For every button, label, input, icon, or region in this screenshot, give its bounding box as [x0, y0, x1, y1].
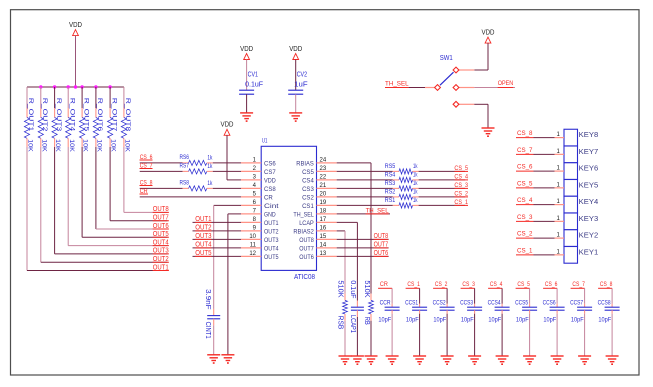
svg-text:10K: 10K	[96, 139, 103, 152]
wire CCS7 to ground	[584, 314, 586, 356]
svg-text:RS1: RS1	[385, 197, 396, 204]
svg-text:10K: 10K	[82, 139, 89, 152]
svg-text:OUT5: OUT5	[264, 254, 279, 261]
svg-text:1k: 1k	[207, 155, 212, 162]
wire pin 9 (OUT2)	[193, 230, 242, 232]
wire pin 19 to RS1	[337, 204, 393, 206]
svg-text:1k: 1k	[413, 189, 418, 196]
svg-text:CS8: CS8	[264, 186, 276, 193]
resistor RS6 1k	[180, 154, 213, 165]
resistor R_OUT7 10K	[108, 98, 118, 153]
svg-text:10K: 10K	[40, 139, 47, 152]
net label CS_2 (right)	[454, 190, 468, 197]
svg-text:RS6: RS6	[180, 154, 190, 161]
wire RS4 to CS_4 label	[419, 179, 465, 181]
ground (CCS8)	[606, 356, 619, 364]
svg-text:RS4: RS4	[385, 172, 396, 179]
wire pin 20 to RS2	[337, 196, 393, 198]
wire bus to R_OUT1	[26, 87, 28, 108]
pin 12 (OUT5)	[241, 251, 279, 261]
wire switch to ground	[474, 104, 488, 128]
svg-text:CS6: CS6	[264, 161, 276, 168]
ground (CCS1)	[413, 356, 426, 364]
net label OUT1 (U1)	[195, 216, 211, 223]
svg-text:CS_2: CS_2	[435, 281, 448, 288]
wire R_OUT6 to OUT6 label	[96, 147, 168, 229]
svg-text:U1: U1	[262, 138, 268, 145]
svg-text:LCAP1: LCAP1	[349, 315, 356, 333]
svg-text:VDD: VDD	[69, 22, 82, 29]
capacitor CCS7 10pF	[570, 300, 592, 324]
wire pin 21 to RS3	[337, 187, 393, 189]
svg-text:10pF: 10pF	[598, 317, 611, 324]
svg-text:OUT7: OUT7	[299, 246, 314, 253]
net label OUT8 (U1 right)	[374, 233, 389, 240]
svg-text:1k: 1k	[207, 163, 212, 170]
resistor RS4 1k	[385, 172, 419, 183]
connector KEY6	[555, 163, 599, 180]
pin 6 (Cint)	[241, 200, 279, 210]
svg-text:RBIAS2: RBIAS2	[293, 229, 314, 236]
svg-text:KEY1: KEY1	[579, 247, 599, 256]
svg-text:CS_5: CS_5	[454, 165, 468, 172]
svg-text:CS_6: CS_6	[517, 164, 533, 171]
ground (CCS2)	[441, 356, 454, 364]
connector KEY5	[555, 180, 599, 197]
wire RS7 to pin 2	[213, 170, 241, 172]
svg-text:OUT5: OUT5	[195, 250, 211, 257]
svg-text:CR: CR	[264, 195, 273, 202]
power flag VDD (CV1)	[240, 46, 253, 60]
svg-text:10K: 10K	[124, 139, 131, 152]
svg-text:OUT2: OUT2	[264, 229, 279, 236]
svg-text:CS1: CS1	[302, 203, 314, 210]
wire CS_6 to CCS6	[556, 288, 558, 304]
ground (CV1)	[240, 113, 253, 121]
svg-text:CS_3: CS_3	[454, 182, 468, 189]
svg-text:OUT1: OUT1	[264, 220, 279, 227]
svg-text:CS_5: CS_5	[517, 281, 530, 288]
junction bus/R_OUT6	[94, 85, 97, 88]
junction bus/R_OUT3	[53, 85, 56, 88]
capacitor CCS5 10pF	[515, 300, 537, 324]
wire R_OUT5 to OUT5 label	[82, 147, 167, 237]
pin 17 (LCAP)	[299, 217, 337, 227]
ground (RSB)	[339, 356, 352, 364]
wire CCR to ground	[391, 314, 393, 356]
net label TH_SEL (switch)	[385, 81, 425, 88]
net label CS_6	[140, 154, 153, 161]
wire bus to R_OUT8	[123, 87, 125, 108]
wire pin 12 (OUT5)	[193, 255, 242, 257]
pin 16 (RBIAS2)	[293, 225, 336, 235]
capacitor CCS1 10pF	[405, 300, 427, 324]
resistor R_OUT5 10K	[80, 98, 90, 153]
pin 23 (CS5)	[302, 166, 337, 176]
IC U1 ATIC08 body	[261, 138, 316, 281]
svg-text:Cint: Cint	[264, 203, 279, 210]
resistor R_OUT8 10K	[121, 98, 131, 153]
svg-text:CS2: CS2	[302, 195, 314, 202]
net label CS_8 (KEY8)	[516, 130, 555, 137]
wire pin 18 (TH_SEL)	[337, 213, 390, 215]
svg-text:CS4: CS4	[302, 178, 314, 185]
svg-text:13: 13	[320, 251, 327, 257]
svg-text:10pF: 10pF	[378, 317, 391, 324]
svg-text:CCS2: CCS2	[433, 300, 446, 307]
capacitor CCS8 10pF	[598, 300, 620, 324]
resistor RS7 1k	[180, 163, 213, 174]
wire pin 22 to RS4	[337, 179, 393, 181]
svg-text:10pF: 10pF	[461, 317, 474, 324]
net label OUT4 (U1)	[195, 241, 211, 248]
wire CCS2 to ground	[446, 314, 448, 356]
svg-text:R_OUT8: R_OUT8	[124, 98, 131, 132]
resistor R_OUT6 10K	[93, 98, 103, 153]
wire VDD to bus	[75, 36, 77, 87]
svg-text:OUT4: OUT4	[264, 246, 279, 253]
pin 3 (VDD)	[241, 174, 276, 184]
wire CV1 to ground	[246, 94, 248, 113]
wire R_OUT4 to OUT4 label	[68, 147, 167, 246]
svg-text:1k: 1k	[207, 180, 212, 187]
pin 11 (OUT4)	[241, 242, 279, 252]
wire pin 24 to RB	[337, 163, 371, 294]
svg-text:KEY2: KEY2	[579, 231, 599, 240]
connector KEY7	[555, 146, 599, 163]
wire pin 15 (OUT8)	[337, 238, 389, 240]
junction bus/R_OUT5	[80, 85, 83, 88]
ground (CCS7)	[578, 356, 591, 364]
capacitor CCR 10pF	[378, 300, 399, 324]
wire CS_7 to RS7	[140, 170, 183, 172]
svg-text:10pF: 10pF	[433, 317, 446, 324]
svg-text:10pF: 10pF	[488, 317, 501, 324]
wire bus (resistor bank rail)	[27, 86, 124, 88]
resistor RS2 1k	[385, 189, 419, 200]
wire VDD to switch	[474, 43, 488, 70]
wire VDD to pin 3	[227, 135, 241, 180]
ground (CV2)	[289, 113, 302, 121]
svg-text:CS_1: CS_1	[454, 199, 468, 206]
wire R_OUT1 to OUT1 label	[27, 147, 168, 271]
wire pin 13 (OUT6)	[337, 255, 389, 257]
wire bus to R_OUT2	[40, 87, 42, 108]
net label TH_SEL (pin 18)	[366, 207, 389, 214]
svg-text:OUT2: OUT2	[195, 224, 211, 231]
svg-text:10K: 10K	[54, 139, 61, 152]
svg-text:10pF: 10pF	[516, 317, 529, 324]
svg-text:11: 11	[250, 242, 257, 248]
svg-text:CS_7: CS_7	[517, 147, 533, 154]
pin 21 (CS3)	[302, 183, 337, 193]
svg-text:SW1: SW1	[440, 55, 453, 62]
junction bus/R_OUT2	[39, 85, 42, 88]
svg-text:RS2: RS2	[385, 189, 396, 196]
wire CINT1 to ground	[213, 325, 215, 355]
wire VDD to CV1	[246, 60, 248, 91]
wire CS_8 to CCS8	[611, 288, 613, 304]
svg-text:TH_SEL: TH_SEL	[293, 212, 314, 219]
resistor R_OUT1 10K	[24, 98, 34, 153]
wire pin 14 (OUT7)	[337, 247, 389, 249]
ground (CCS4)	[496, 356, 509, 364]
svg-text:R_OUT3: R_OUT3	[55, 98, 62, 132]
wire R_OUT2 to OUT2 label	[41, 147, 168, 262]
wire CCS1 to ground	[419, 314, 421, 356]
wire CS_5 to CCS5	[529, 288, 531, 304]
wire RS3 to CS_3 label	[419, 187, 465, 189]
wire pin 17 to LCAP1	[337, 222, 358, 300]
svg-text:R_OUT5: R_OUT5	[82, 98, 89, 132]
resistor R_OUT2 10K	[38, 98, 48, 153]
capacitor CINT1 3.9nF	[204, 289, 220, 339]
net label OUT5 (U1)	[195, 250, 211, 257]
ground (SW1)	[482, 128, 495, 136]
svg-text:CS_2: CS_2	[454, 190, 468, 197]
net label OUT1 (bank)	[153, 264, 169, 271]
svg-text:18: 18	[320, 208, 327, 214]
svg-text:OUT6: OUT6	[374, 250, 389, 257]
net label CR (bottom)	[378, 281, 392, 288]
resistor R_OUT3 10K	[52, 98, 62, 153]
svg-text:CS_4: CS_4	[454, 173, 468, 180]
wire bus to R_OUT7	[109, 87, 111, 108]
wire R_OUT8 to OUT8 label	[124, 147, 168, 212]
power flag VDD (U1 pin 3)	[221, 122, 234, 136]
wire RB to ground	[370, 321, 372, 356]
svg-text:16: 16	[320, 225, 327, 231]
svg-text:21: 21	[320, 183, 327, 189]
svg-text:CCS7: CCS7	[570, 300, 583, 307]
svg-text:CCS1: CCS1	[405, 300, 418, 307]
svg-text:RBIAS: RBIAS	[296, 161, 314, 168]
capacitor CV2 1uF	[288, 72, 307, 95]
svg-text:OUT7: OUT7	[374, 241, 389, 248]
net label CS_5 (right)	[454, 165, 468, 172]
ground (U1 GND)	[221, 355, 234, 363]
svg-text:KEY6: KEY6	[579, 164, 599, 173]
svg-text:10K: 10K	[68, 139, 75, 152]
pin 15 (OUT8)	[299, 234, 337, 244]
net label OUT2 (bank)	[153, 256, 169, 263]
net label CS_3 (KEY3)	[516, 214, 555, 221]
svg-text:15: 15	[320, 234, 327, 240]
wire CCS5 to ground	[529, 314, 531, 356]
svg-text:14: 14	[320, 242, 327, 248]
resistor RSB 510K	[337, 280, 348, 329]
svg-text:OUT8: OUT8	[299, 237, 314, 244]
connector KEY8	[555, 129, 599, 146]
resistor R_OUT4 10K	[66, 98, 76, 153]
wire RSB to ground	[344, 321, 346, 356]
svg-text:KEY7: KEY7	[579, 147, 599, 156]
svg-text:10: 10	[249, 234, 256, 240]
svg-text:CS_8: CS_8	[517, 130, 533, 137]
svg-text:17: 17	[320, 217, 327, 223]
net label CS_6 (bottom)	[543, 281, 557, 288]
connector KEY3	[555, 213, 599, 230]
svg-text:CS_1: CS_1	[517, 247, 533, 254]
svg-text:CS7: CS7	[264, 169, 276, 176]
svg-text:LCAP: LCAP	[299, 220, 314, 227]
pin 19 (CS1)	[302, 200, 337, 210]
pin 4 (CS8)	[241, 183, 276, 193]
svg-text:10pF: 10pF	[571, 317, 584, 324]
wire RS8 to pin 4	[213, 187, 241, 189]
svg-text:RS3: RS3	[385, 180, 396, 187]
svg-text:RS7: RS7	[180, 163, 190, 170]
svg-text:CS_5: CS_5	[517, 180, 533, 187]
net label OUT6 (bank)	[153, 223, 169, 230]
net label CS_4 (bottom)	[488, 281, 502, 288]
svg-text:R_OUT1: R_OUT1	[27, 98, 34, 132]
power flag VDD (resistor bank)	[69, 22, 82, 36]
svg-text:VDD: VDD	[240, 46, 253, 53]
svg-text:1k: 1k	[413, 163, 418, 170]
svg-text:CS_7: CS_7	[572, 281, 585, 288]
svg-text:CCS8: CCS8	[598, 300, 611, 307]
net label CS_1 (right)	[454, 199, 468, 206]
wire CCS3 to ground	[474, 314, 476, 356]
svg-text:R_OUT6: R_OUT6	[96, 98, 103, 132]
net label CS_1 (bottom)	[406, 281, 420, 288]
svg-text:OPEN: OPEN	[498, 80, 514, 87]
capacitor CCS2 10pF	[433, 300, 455, 324]
net label OUT6 (U1 right)	[374, 250, 389, 257]
svg-text:OUT3: OUT3	[264, 237, 279, 244]
svg-text:10pF: 10pF	[406, 317, 419, 324]
wire bus to R_OUT4	[67, 87, 69, 108]
svg-text:OUT3: OUT3	[195, 233, 211, 240]
capacitor CCS3 10pF	[460, 300, 482, 324]
wire CCS4 to ground	[501, 314, 503, 356]
wire CCS8 to ground	[611, 314, 613, 356]
junction bus/R_OUT7	[108, 85, 111, 88]
wire switch to OPEN	[474, 87, 515, 89]
svg-text:10K: 10K	[27, 139, 34, 152]
net label OUT5 (bank)	[153, 231, 169, 238]
pin 13 (OUT6)	[299, 251, 337, 261]
svg-text:CCS4: CCS4	[488, 300, 501, 307]
net label OUT8 (bank)	[153, 206, 169, 213]
svg-text:R_OUT4: R_OUT4	[68, 98, 75, 132]
pin 22 (CS4)	[302, 174, 337, 184]
svg-text:OUT4: OUT4	[195, 241, 211, 248]
svg-text:CS_6: CS_6	[545, 281, 558, 288]
svg-text:VDD: VDD	[264, 178, 276, 185]
net label CS_7 (KEY7)	[516, 147, 555, 154]
svg-text:0.1uF: 0.1uF	[245, 82, 263, 89]
wire bus to R_OUT5	[81, 87, 83, 108]
wire CS_1 to CCS1	[419, 288, 421, 304]
svg-text:RSB: RSB	[337, 316, 344, 330]
svg-text:1k: 1k	[413, 172, 418, 179]
svg-text:CS_4: CS_4	[490, 281, 503, 288]
wire VDD to CV2	[295, 60, 297, 91]
pin 7 (GND)	[241, 208, 276, 218]
svg-text:CCS3: CCS3	[460, 300, 473, 307]
pin 10 (OUT3)	[241, 234, 279, 244]
net label OUT2 (U1)	[195, 224, 211, 231]
wire RS1 to CS_1 label	[419, 204, 465, 206]
net label CS_5 (bottom)	[516, 281, 530, 288]
svg-text:VDD: VDD	[482, 30, 495, 37]
net label CS_8	[140, 180, 153, 187]
wire R_OUT7 to OUT7 label	[110, 147, 167, 221]
switch SW1	[425, 55, 474, 107]
ground (CCS5)	[523, 356, 536, 364]
svg-text:KEY3: KEY3	[579, 214, 599, 223]
power flag VDD (SW1)	[482, 30, 495, 44]
wire CS_4 to CCS4	[501, 288, 503, 304]
wire CCS6 to ground	[556, 314, 558, 356]
wire pin 10 (OUT3)	[193, 238, 242, 240]
pin 14 (OUT7)	[299, 242, 337, 252]
svg-text:CCS6: CCS6	[543, 300, 556, 307]
resistor RS1 1k	[385, 197, 419, 208]
wire CR to pin 5	[140, 196, 241, 198]
svg-text:10pF: 10pF	[543, 317, 556, 324]
connector KEY4	[555, 196, 599, 213]
connector KEY2	[555, 230, 599, 247]
svg-text:CS3: CS3	[302, 186, 314, 193]
resistor RS5 1k	[385, 163, 419, 174]
net label OPEN	[498, 80, 514, 87]
resistor RS3 1k	[385, 180, 419, 191]
wire RS2 to CS_2 label	[419, 196, 465, 198]
ground (RB)	[365, 356, 378, 364]
pin 5 (CR)	[241, 191, 273, 201]
svg-text:1k: 1k	[413, 180, 418, 187]
net label OUT3 (bank)	[153, 248, 169, 255]
svg-text:VDD: VDD	[221, 122, 234, 129]
net label CS_2 (KEY2)	[516, 231, 555, 238]
wire bus to R_OUT3	[54, 87, 56, 108]
svg-text:R_OUT2: R_OUT2	[41, 98, 48, 132]
svg-text:KEY5: KEY5	[579, 180, 599, 189]
wire pin 23 to RS5	[337, 170, 393, 172]
svg-text:CV2: CV2	[297, 72, 307, 79]
wire CS_2 to CCS2	[446, 288, 448, 304]
capacitor CV1 0.1uF	[239, 72, 263, 95]
net label OUT7 (U1 right)	[374, 241, 389, 248]
svg-text:CS_1: CS_1	[407, 281, 420, 288]
wire CV2 to ground	[295, 94, 297, 113]
net label CS_7	[140, 163, 153, 170]
net label CS_4 (right)	[454, 173, 468, 180]
net label CS_7 (bottom)	[571, 281, 585, 288]
svg-text:CS5: CS5	[302, 169, 314, 176]
ground (LCAP1)	[351, 356, 364, 364]
wire R_OUT3 to OUT3 label	[55, 147, 168, 254]
svg-text:CCR: CCR	[380, 300, 391, 307]
ground (CCR)	[386, 356, 399, 364]
pin 18 (TH_SEL)	[293, 208, 336, 218]
junction bus/VDD	[74, 85, 77, 88]
capacitor CCS4 10pF	[488, 300, 510, 324]
junction bus/R_OUT4	[67, 85, 70, 88]
svg-text:0.1uF: 0.1uF	[349, 280, 356, 298]
connector KEY1	[555, 247, 599, 264]
wire CS_3 to CCS3	[474, 288, 476, 304]
wire CS_8 to RS8	[140, 187, 183, 189]
wire bus to R_OUT6	[95, 87, 97, 108]
net label OUT7 (bank)	[153, 215, 169, 222]
svg-text:1k: 1k	[413, 197, 418, 204]
wire pin 11 (OUT4)	[193, 247, 242, 249]
svg-text:CV1: CV1	[248, 72, 258, 79]
